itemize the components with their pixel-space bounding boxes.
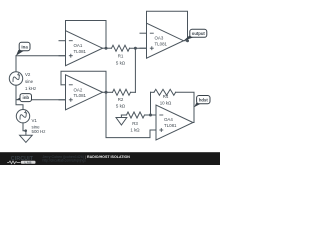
svg-text:hdst: hdst bbox=[199, 98, 208, 103]
junction OA2 output bbox=[105, 91, 108, 94]
wire OA2 feedback loop bbox=[61, 71, 106, 92]
resistor R1 bbox=[112, 45, 130, 51]
voltage source V1 bbox=[16, 110, 29, 123]
wire ina to OA1 plus input bbox=[16, 55, 66, 57]
svg-text:TL081: TL081 bbox=[164, 123, 177, 128]
svg-text:R3: R3 bbox=[132, 121, 138, 126]
footer banner bbox=[0, 152, 220, 165]
label hdst bbox=[194, 96, 210, 108]
resistor R4 bbox=[151, 91, 155, 93]
wire V2 bottom to inb node bbox=[15, 85, 17, 100]
junction below V1 bbox=[24, 129, 27, 132]
label inb bbox=[16, 94, 31, 102]
svg-text:V1: V1 bbox=[32, 118, 38, 123]
wire inb node to OA2 plus input bbox=[16, 99, 66, 101]
wire node X down to R2 right terminal bbox=[134, 48, 136, 92]
wire node up to R4 left terminal bbox=[150, 92, 152, 115]
svg-text:R1: R1 bbox=[118, 54, 124, 59]
wire R1 to OA3 plus input bbox=[130, 47, 147, 49]
svg-text:V2: V2 bbox=[25, 72, 31, 77]
junction OA3 output bbox=[186, 39, 189, 42]
ground symbol (left of R3) bbox=[120, 115, 122, 118]
svg-text:ina: ina bbox=[21, 45, 28, 50]
wire R2 right terminal up to node X bbox=[131, 91, 136, 93]
svg-text:OA3: OA3 bbox=[155, 36, 164, 41]
svg-text:R2: R2 bbox=[118, 97, 124, 102]
svg-text:5 kΩ: 5 kΩ bbox=[116, 104, 126, 109]
wire OA1 output to R1 bbox=[103, 47, 112, 49]
svg-text:OA2: OA2 bbox=[74, 87, 83, 92]
wire OA3 feedback loop bbox=[147, 11, 188, 40]
svg-text:5 kΩ: 5 kΩ bbox=[116, 61, 126, 66]
wire inb node down to V1 top (jog right) bbox=[16, 100, 23, 110]
op-amp OA3 (buffer) bbox=[140, 23, 184, 58]
svg-text:TL081: TL081 bbox=[155, 41, 168, 46]
svg-text:TL081: TL081 bbox=[74, 49, 87, 54]
component labels bbox=[25, 36, 177, 134]
junction node X (R1/R2/OA3+) bbox=[134, 47, 137, 50]
svg-text:LAB: LAB bbox=[24, 160, 31, 164]
label output bbox=[184, 29, 207, 40]
ground symbol (below V1) bbox=[20, 135, 33, 142]
svg-text:1 kΩ: 1 kΩ bbox=[130, 127, 140, 132]
resistor R3 bbox=[121, 114, 126, 116]
voltage source V2 bbox=[9, 72, 22, 85]
svg-text:TL081: TL081 bbox=[74, 93, 87, 98]
wire OA3 output bbox=[184, 40, 188, 42]
svg-text:inb: inb bbox=[23, 95, 30, 100]
svg-text:sine: sine bbox=[25, 79, 34, 84]
svg-text:10 kΩ: 10 kΩ bbox=[160, 101, 172, 106]
wire R4 right terminal to OA4 output bbox=[176, 92, 194, 122]
op-amp OA4 bbox=[150, 105, 194, 140]
svg-text:OA4: OA4 bbox=[164, 117, 173, 122]
svg-text:http://circuitlab.com/c/nqnjng: http://circuitlab.com/c/nqnjngs bbox=[43, 159, 87, 163]
op-amp OA2 (buffer) bbox=[59, 75, 103, 110]
junction R3/R4/OA4 minus node bbox=[149, 114, 152, 117]
wire ina down to V2 top bbox=[15, 56, 17, 72]
wire OA2 output down to OA4 plus input bbox=[106, 92, 156, 137]
wire V1 bottom to ground bbox=[23, 123, 26, 135]
resistor R2 bbox=[113, 89, 131, 95]
wire OA1 feedback loop bbox=[66, 21, 107, 49]
label ina bbox=[16, 42, 30, 55]
node ina bbox=[0, 0, 1, 1]
wire OA2 output to R2 bbox=[103, 91, 113, 93]
svg-text:output: output bbox=[192, 31, 206, 36]
svg-text:500 Hz: 500 Hz bbox=[32, 129, 46, 134]
svg-text:1 kHz: 1 kHz bbox=[25, 86, 36, 91]
op-amp OA1 (buffer) bbox=[59, 31, 103, 66]
junction OA1 output bbox=[105, 47, 108, 50]
svg-text:OA1: OA1 bbox=[74, 43, 83, 48]
svg-text:R4: R4 bbox=[163, 94, 169, 99]
wire R3 to OA4 minus input bbox=[145, 114, 157, 116]
